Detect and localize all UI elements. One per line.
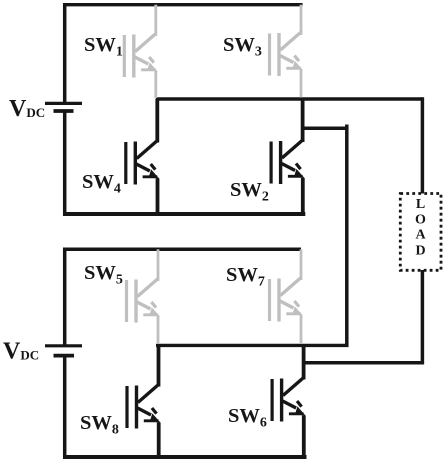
wire: SW4 emitter wire xyxy=(156,179,160,215)
svg-text:D: D xyxy=(415,244,425,259)
wire: left wire upper bridge2 xyxy=(63,248,67,346)
wire: SW3 emitter wire xyxy=(300,70,303,98)
transistor SW3 xyxy=(270,33,304,77)
svg-text:SW3: SW3 xyxy=(223,34,262,60)
wire: SW5 emitter wire xyxy=(157,316,160,344)
svg-text:SW6: SW6 xyxy=(228,405,267,431)
wire: SW2 emitter wire xyxy=(301,178,305,214)
wire: SW8 emitter wire xyxy=(157,423,161,458)
svg-text:SW4: SW4 xyxy=(82,171,121,197)
svg-text:SW5: SW5 xyxy=(84,262,123,288)
wire: SW4 collector wire xyxy=(155,99,159,143)
wire: SW6 emitter wire xyxy=(302,416,306,458)
svg-text:A: A xyxy=(415,228,426,243)
svg-text:VDC: VDC xyxy=(3,339,39,365)
wire: bottom rail bridge2 xyxy=(63,455,307,459)
transistor SW1 xyxy=(124,34,158,78)
wire: mid rail bridge1 xyxy=(156,97,423,100)
battery V_DC1 short plate xyxy=(54,109,74,113)
wire: SW7 collector wire xyxy=(300,249,303,280)
svg-text:L: L xyxy=(416,197,425,212)
wire: SW1 collector wire xyxy=(154,5,157,36)
svg-text:O: O xyxy=(415,213,426,228)
battery V_DC2 long plate xyxy=(45,344,82,347)
svg-text:SW2: SW2 xyxy=(230,179,269,205)
transistor SW2 xyxy=(271,141,305,185)
svg-text:SW7: SW7 xyxy=(226,264,265,290)
wire: LOAD bottom to SW6 collector xyxy=(304,270,423,363)
transistor SW7 xyxy=(270,278,304,322)
wire: SW7 emitter wire xyxy=(300,315,303,344)
wire: SW2 collector wire xyxy=(301,99,305,142)
wire: top rail bridge1 xyxy=(63,3,303,6)
wire: SW5 collector wire xyxy=(157,249,160,281)
transistor SW6 xyxy=(272,378,306,422)
wire: left wire lower bridge1 xyxy=(63,111,67,216)
wire: SW8 collector wire xyxy=(157,345,161,386)
transistor SW4 xyxy=(126,141,160,185)
svg-text:VDC: VDC xyxy=(9,96,45,122)
wire: mid rail bridge2 xyxy=(156,344,349,347)
wire: output branch bridge1 to bridge2 xyxy=(303,127,349,131)
wire: bottom rail bridge1 xyxy=(63,212,305,216)
wire: left wire upper bridge1 xyxy=(63,3,67,103)
wire: SW3 collector wire xyxy=(300,5,303,35)
wire: SW6 collector wire xyxy=(302,345,306,379)
wire: SW1 emitter wire xyxy=(154,71,157,98)
wire: right wire to LOAD top xyxy=(421,97,425,193)
transistor SW8 xyxy=(127,385,161,429)
battery V_DC2 short plate xyxy=(54,354,75,358)
wire: top rail bridge2 xyxy=(63,248,301,252)
LOAD box xyxy=(400,194,441,271)
transistor SW5 xyxy=(127,279,161,323)
battery V_DC1 long plate xyxy=(45,102,82,105)
wire: left wire lower bridge2 xyxy=(63,356,67,459)
svg-text:SW8: SW8 xyxy=(80,412,119,438)
svg-text:SW1: SW1 xyxy=(84,34,123,60)
